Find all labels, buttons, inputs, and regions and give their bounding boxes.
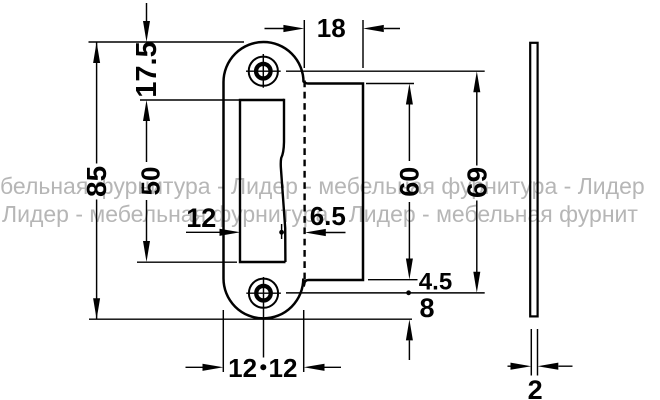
dimension 12-12 bottom	[186, 353, 342, 383]
extension stub at cutout right for 6.5	[281, 224, 283, 239]
dimension 8	[406, 293, 435, 360]
dimension 60	[395, 84, 425, 280]
svg-text:50: 50	[135, 167, 165, 196]
svg-text:8: 8	[419, 293, 434, 323]
svg-text:2: 2	[528, 375, 543, 400]
svg-text:4.5: 4.5	[419, 268, 452, 295]
extension line top of plate y=42	[89, 41, 245, 43]
extension line cutout bottom y=262	[137, 261, 237, 263]
extension line plate bottom y=319	[89, 318, 412, 320]
svg-text:12: 12	[186, 203, 216, 233]
extension line cutout top y=100	[140, 99, 239, 101]
dimension 6.5	[305, 201, 346, 236]
svg-text:18: 18	[317, 13, 346, 43]
dimension 2	[508, 363, 573, 400]
svg-text:85: 85	[81, 166, 112, 197]
svg-text:6.5: 6.5	[310, 201, 346, 231]
dimension 12 (cutout width)	[186, 203, 284, 236]
svg-text:12: 12	[269, 353, 298, 383]
extension lines thickness 2	[531, 329, 537, 376]
tab (flange) outline	[303, 81, 363, 286]
dimension 69	[461, 71, 492, 293]
cutout rectangle	[240, 100, 286, 262]
dimension 4.5 (dot terminator)	[406, 268, 452, 295]
svg-text:60: 60	[395, 167, 425, 197]
extension line 18 left	[303, 20, 305, 68]
plate outline (front view obround)	[224, 42, 304, 318]
dimension 85	[81, 42, 112, 319]
top screw hole	[246, 54, 281, 88]
bottom hole centerline down to 12-12 dim	[263, 277, 265, 358]
svg-text:17.5: 17.5	[131, 41, 163, 97]
dimension 50	[135, 167, 165, 262]
extension line from bottom hole center	[286, 292, 485, 294]
extension line 12-12 left	[222, 310, 224, 372]
extension line tab bottom	[368, 279, 418, 281]
bottom screw hole	[246, 279, 281, 308]
extension line from top hole center	[286, 70, 485, 72]
cutout right wavy edge	[281, 99, 286, 262]
side view thin plate	[530, 43, 537, 317]
dimension 17.5	[131, 3, 163, 162]
bend line (dashed)	[303, 81, 305, 281]
dot terminator at cutout right edge	[279, 230, 284, 235]
dimension 18	[265, 13, 401, 43]
extension line tab top	[366, 83, 414, 85]
extension line 18 right	[362, 20, 364, 68]
svg-text:12: 12	[228, 353, 257, 383]
extension line 12-12 right	[303, 310, 305, 372]
svg-text:69: 69	[461, 167, 492, 198]
